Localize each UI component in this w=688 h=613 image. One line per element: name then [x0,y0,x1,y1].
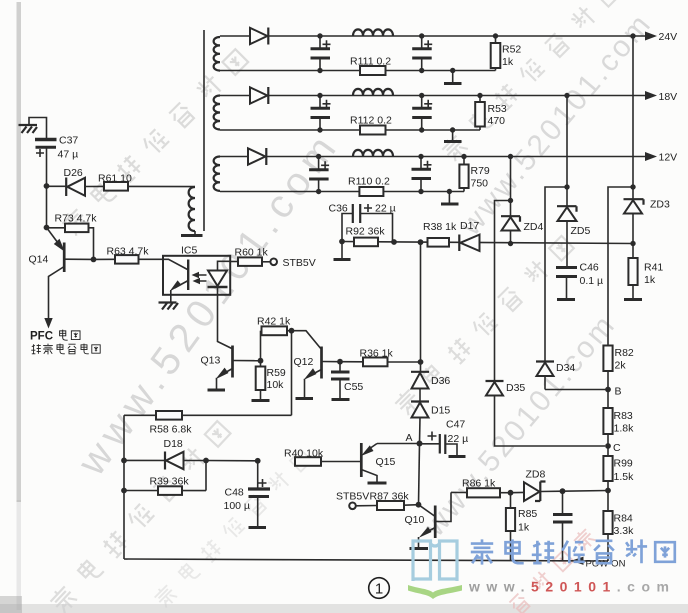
wire sense line [342,242,633,244]
resistor R79 750 [461,154,466,159]
svg-text:R110 0.2: R110 0.2 [348,176,390,188]
node row2 cap1 [317,93,322,98]
zener ZD5 column wire [566,96,568,207]
diode D17 [458,235,460,252]
svg-text:R61 10: R61 10 [98,173,132,185]
svg-text:C36: C36 [329,203,348,215]
node R99/R84 [605,488,611,494]
wire sense column down [420,242,422,362]
logo green swoosh [408,585,462,599]
svg-text:Q10: Q10 [405,514,425,526]
rectifier diode row3 [248,148,265,164]
ground row3 [447,189,452,194]
node Q13 base [258,358,264,364]
capacitor C48 100u [257,461,259,489]
resistor R60 1k [230,261,238,263]
wire 24V rail [220,35,250,37]
zener ZD3 column wire [632,36,634,199]
IC5 LED [218,261,231,270]
capacitor row1 C-b [421,36,423,48]
resistor R73 4.7k [47,227,66,229]
svg-text:D26: D26 [64,167,83,179]
wire R58 to R42 node [291,331,293,416]
diode D35 [486,380,504,382]
ground top-left [19,125,38,133]
svg-text:10k: 10k [267,379,285,391]
zener ZD4 column wire [510,157,512,217]
svg-text:D35: D35 [506,382,525,394]
capacitor row3 C-b [420,157,422,169]
node 24V ZD3 column [630,33,635,38]
svg-text:PFC: PFC [30,331,53,343]
node 12V ZD4 column [508,154,513,159]
diode D36 [420,362,422,372]
svg-text:R40 10k: R40 10k [284,448,324,460]
page number circle 1 [369,578,390,599]
transistor Q12 [292,331,321,349]
svg-text:12V: 12V [659,152,678,164]
svg-text:C47: C47 [446,419,465,431]
wire to C48 node [206,460,258,462]
zener ZD3 [624,199,644,205]
transformer aux winding [189,187,195,231]
svg-text:ZD5: ZD5 [571,225,591,237]
svg-text:C55: C55 [344,381,363,393]
zener ZD4 [501,216,520,222]
svg-text:R111 0.2: R111 0.2 [350,56,391,68]
svg-text:ZD8: ZD8 [526,469,546,481]
svg-text:0.1 µ: 0.1 µ [580,275,604,287]
node A [417,441,423,447]
resistor R42 1k [260,331,262,361]
arrow 12V [645,152,657,161]
resistor R59 10k [260,361,262,367]
resistor R41 1k [632,244,634,259]
svg-text:R39 36k: R39 36k [150,476,190,488]
rectifier diode row1 [250,28,267,44]
resistor R110 0.2 [359,187,383,196]
capacitor row2 C-b [421,96,423,108]
resistor R86 1k [451,491,467,493]
svg-text:D36: D36 [431,375,450,387]
inductor row1 [353,29,393,36]
transistor Q13 [231,346,234,378]
watermark pink bottom-right [508,527,597,613]
diode D34 [536,360,554,362]
node sense/R41 [630,241,635,246]
resistor R85 1k [510,493,512,508]
svg-text:R112 0.2: R112 0.2 [350,115,392,127]
wire C37 to Q14 [46,186,48,228]
resistor R40 10k [295,457,321,466]
inductor row3 [353,150,393,157]
terminal STB5V [270,259,277,266]
IC5 phototransistor [163,259,188,269]
wire 18V rail [220,95,250,97]
wire row3 bottom [220,191,464,193]
scan artifact left edge band [17,2,22,502]
resistor R61 10 [104,182,128,191]
svg-text:22 µ: 22 µ [375,203,396,215]
resistor R52 1k [493,33,498,38]
node R86/R85/ZD8 [508,490,514,496]
capacitor C46 0.1u [556,266,577,269]
node D26 [44,183,50,189]
svg-text:R36 1k: R36 1k [360,348,394,360]
wire left column [123,415,125,559]
svg-text:47 µ: 47 µ [58,149,79,161]
wire 12V rail [220,156,248,158]
svg-text:R53: R53 [488,103,507,115]
watermark CJK bottom-left [48,419,233,613]
node R92 right [391,239,397,245]
svg-text:750: 750 [471,178,489,190]
svg-text:ZD3: ZD3 [650,199,670,211]
svg-text:18V: 18V [659,91,678,103]
svg-text:D34: D34 [556,362,575,374]
svg-text:R41: R41 [644,262,663,274]
svg-text:1.5k: 1.5k [614,471,635,483]
svg-text:R92 36k: R92 36k [346,226,386,238]
wire row1 bottom [220,70,496,72]
svg-text:R59: R59 [267,367,286,379]
transistor Q10 [419,505,435,516]
arrow 18V [645,91,657,100]
svg-text:1: 1 [375,581,383,598]
svg-text:2k: 2k [615,360,627,372]
svg-text:C46: C46 [580,262,599,274]
capacitor row1 C-a [319,36,321,48]
wire D34 hook [545,187,567,361]
svg-text:3.3k: 3.3k [614,525,635,537]
diode D18 [164,452,166,470]
transistor Q15 [377,443,420,445]
svg-text:R87 36k: R87 36k [370,491,410,503]
diode D15 [419,389,421,402]
svg-text:Q13: Q13 [201,355,221,367]
svg-text:1k: 1k [644,274,656,286]
svg-text:R79: R79 [471,165,490,177]
arrow 24V [645,32,657,41]
transformer secondary winding W3 [214,157,220,191]
wire D18 row [124,459,206,461]
transistor Q14 [47,228,62,248]
logo text CJK blue [471,539,675,564]
capacitor row2 C-a [319,96,321,108]
svg-text:R52: R52 [502,44,521,56]
resistor R87 36k [356,505,377,507]
capacitor row3 C-a [318,157,320,170]
svg-text:D17: D17 [460,220,479,232]
resistor R92 36k [354,238,378,247]
node B [605,387,611,393]
inductor row2 [353,89,393,96]
zener ZD5 [557,206,577,212]
node R42 right [289,328,295,334]
wire R58 row [124,414,292,416]
node C [605,443,611,449]
transformer core [203,30,205,231]
capacitor C36 22u [342,214,352,242]
wire R40 to Q15 base (already) and bottom bus [124,559,608,561]
svg-text:100 µ: 100 µ [224,500,251,512]
node cap column [560,488,566,494]
transformer secondary winding W1 [214,37,220,71]
capacitor C47 22u [420,443,440,445]
watermark CJK mid-right [393,234,576,417]
IC5 coupling arrows [197,275,207,281]
wire row2 bottom [220,129,480,131]
wire R82 top hook [608,187,633,346]
svg-text:C48: C48 [225,487,244,499]
svg-text:Q12: Q12 [294,356,314,368]
svg-text:R42 1k: R42 1k [257,316,291,328]
node Q14 emitter / R73 [44,225,50,231]
svg-text:C: C [613,442,621,454]
svg-text:R58 6.8k: R58 6.8k [150,424,193,436]
zener ZD8 [511,491,525,493]
resistor R82 2k [603,346,612,372]
svg-text:B: B [615,386,622,398]
capacitor by ZD8 [562,491,564,514]
node row1 cap1 [317,33,322,38]
arrow POW-ON [571,557,584,565]
svg-text:C37: C37 [59,135,78,147]
svg-text:R86 1k: R86 1k [462,478,496,490]
svg-text:24V: 24V [659,31,678,43]
scan artifact bottom band [0,604,688,613]
svg-text:STB5V: STB5V [336,491,369,503]
svg-text:R84: R84 [614,513,633,525]
watermark CJK top-left [60,47,250,237]
svg-text:R38 1k: R38 1k [423,221,457,233]
svg-text:R73 4.7k: R73 4.7k [55,213,98,225]
resistor R36 1k [340,361,363,363]
svg-text:470: 470 [488,115,506,127]
resistor R83 1.8k [607,390,609,409]
svg-text:D18: D18 [164,438,183,450]
svg-text:Q14: Q14 [29,254,49,266]
svg-text:R99: R99 [614,458,633,470]
watermark CJK faint bottom-center [152,448,313,609]
wire D35 hook [495,201,511,382]
ground row2 [450,127,455,132]
rectifier diode row2 [250,87,267,103]
resistor R39 36k [158,486,182,495]
svg-text:Q15: Q15 [376,456,396,468]
resistor R84 3.3k [607,491,609,512]
svg-text:R63 4.7k: R63 4.7k [107,246,150,258]
svg-text:R83: R83 [614,410,633,422]
diode D26 [65,178,67,197]
svg-text:22 µ: 22 µ [448,433,469,445]
node row2 cap2 [419,93,424,98]
svg-text:R85: R85 [518,508,537,520]
resistor R63 4.7k [94,258,116,260]
node row3 cap1 [316,154,321,159]
terminal STB5V bottom [349,503,356,510]
capacitor C37 47u [29,118,47,140]
node Q10 base / A column [416,502,422,508]
svg-text:1k: 1k [518,522,530,534]
svg-text:R60 1k: R60 1k [235,247,269,259]
node Q12 base / C55 [337,359,343,365]
svg-text:D15: D15 [431,405,450,417]
resistor R99 1.5k [607,446,609,456]
wire R39 row [124,490,206,492]
svg-text:1k: 1k [502,56,514,68]
transformer secondary winding W2 [214,96,220,130]
node row1 cap2 [419,33,424,38]
resistor R112 0.2 [360,126,386,135]
logo book icon [413,541,457,581]
resistor R111 0.2 [360,66,386,75]
capacitor C55 [339,362,341,372]
optocoupler IC5 box [163,256,230,295]
watermark CJK top-right [440,0,623,163]
node R92 left / ground [339,239,345,245]
IC5 ground slashes [159,303,179,310]
svg-text:IC5: IC5 [181,245,198,257]
svg-text:A: A [406,432,413,444]
resistor R38 1k [428,238,450,247]
ground row1 [450,68,455,73]
wire IC5 to Q13 [218,295,232,349]
node 18V ZD5 column [564,93,569,98]
node sense column [418,239,424,245]
svg-text:www.520101.com: www.520101.com [468,579,675,595]
svg-text:R82: R82 [615,347,634,359]
svg-text:1.8k: 1.8k [614,423,635,435]
node row3 cap2 [418,154,423,159]
resistor R53 470 [477,93,482,98]
resistor R58 6.8k [156,411,182,420]
svg-text:STB5V: STB5V [283,257,316,269]
svg-text:ZD4: ZD4 [524,221,544,233]
